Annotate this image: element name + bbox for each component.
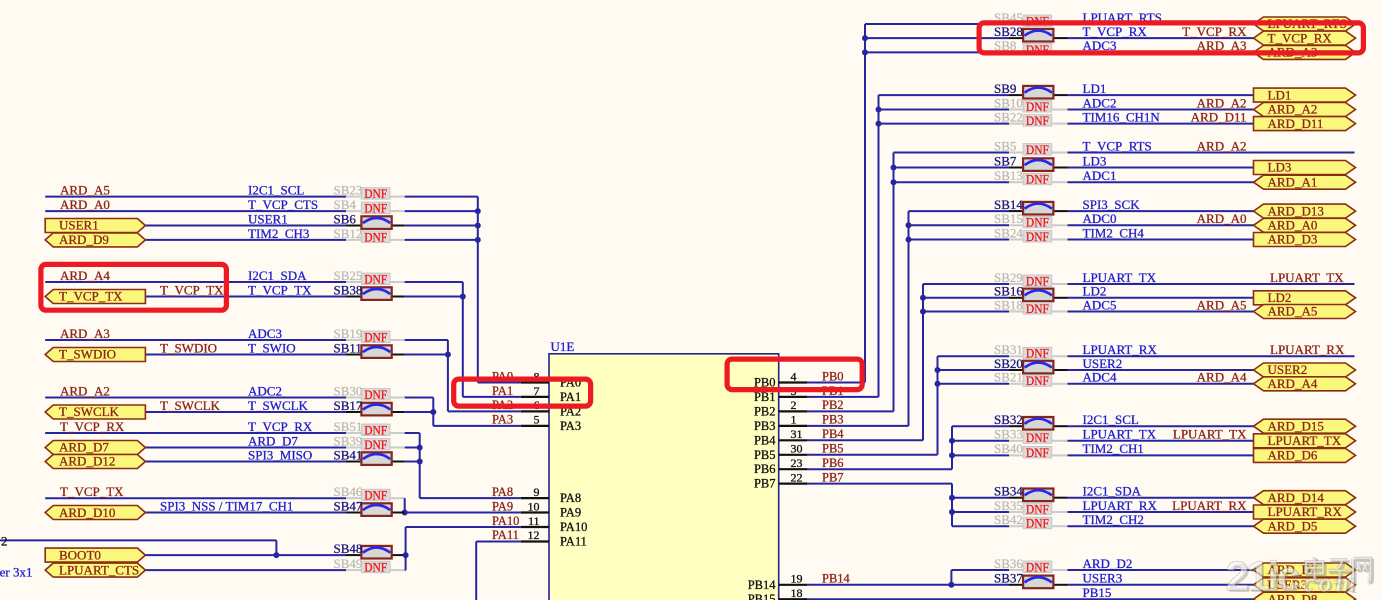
- svg-text:T_VCP_RX: T_VCP_RX: [1182, 24, 1247, 39]
- svg-text:SB41: SB41: [334, 447, 363, 462]
- svg-text:12: 12: [528, 528, 540, 542]
- svg-text:SB42: SB42: [994, 512, 1023, 527]
- svg-text:ARD_D11: ARD_D11: [1268, 116, 1324, 131]
- svg-text:SB5: SB5: [994, 138, 1016, 153]
- svg-text:PB7: PB7: [822, 470, 844, 484]
- svg-text:T_VCP_RX: T_VCP_RX: [1268, 30, 1333, 45]
- svg-text:USER3: USER3: [1083, 571, 1123, 586]
- svg-text:ARD_D15: ARD_D15: [1268, 418, 1324, 433]
- svg-text:PB14: PB14: [748, 578, 777, 592]
- svg-text:9: 9: [534, 485, 540, 499]
- svg-text:ADC3: ADC3: [248, 326, 282, 341]
- svg-text:11: 11: [528, 514, 540, 528]
- svg-text:ARD_D7: ARD_D7: [59, 440, 109, 455]
- svg-text:T_VCP_CTS: T_VCP_CTS: [248, 197, 318, 212]
- svg-text:DNF: DNF: [1026, 373, 1049, 388]
- svg-text:ARD_D3: ARD_D3: [1268, 232, 1318, 247]
- svg-text:PA10: PA10: [560, 520, 587, 534]
- svg-text:com: com: [1303, 568, 1360, 597]
- svg-text:PA9: PA9: [560, 506, 581, 520]
- svg-text:DNF: DNF: [1026, 229, 1049, 244]
- svg-text:SB47: SB47: [334, 498, 363, 513]
- svg-text:PB0: PB0: [822, 369, 844, 383]
- svg-text:LPUART_RX: LPUART_RX: [1270, 342, 1345, 357]
- svg-text:2: 2: [1, 534, 8, 549]
- svg-text:LPUART_TX: LPUART_TX: [1173, 427, 1247, 442]
- svg-text:T_SWCLK: T_SWCLK: [248, 398, 309, 413]
- svg-text:ARD_A0: ARD_A0: [60, 197, 110, 212]
- svg-text:SB19: SB19: [334, 326, 363, 341]
- svg-text:LPUART_TX: LPUART_TX: [1270, 270, 1344, 285]
- svg-text:DNF: DNF: [1026, 559, 1049, 574]
- svg-text:DNF: DNF: [1026, 430, 1049, 445]
- svg-text:SB21: SB21: [994, 370, 1023, 385]
- svg-text:USER2: USER2: [1083, 356, 1123, 371]
- svg-text:ARD_A4: ARD_A4: [60, 268, 110, 283]
- svg-text:TIM2_CH1: TIM2_CH1: [1083, 441, 1144, 456]
- svg-text:SB30: SB30: [334, 383, 363, 398]
- svg-text:ARD_D13: ARD_D13: [1268, 203, 1324, 218]
- svg-text:LD1: LD1: [1268, 87, 1292, 102]
- svg-text:SPI3_NSS / TIM17_CH1: SPI3_NSS / TIM17_CH1: [160, 498, 293, 513]
- svg-text:LD3: LD3: [1083, 153, 1107, 168]
- svg-text:30: 30: [791, 442, 803, 456]
- svg-text:22: 22: [791, 470, 803, 484]
- svg-text:SB7: SB7: [994, 153, 1017, 168]
- svg-text:LPUART_TX: LPUART_TX: [1083, 270, 1157, 285]
- svg-text:T_SWCLK: T_SWCLK: [59, 404, 120, 419]
- svg-text:23: 23: [791, 456, 803, 470]
- svg-text:SB49: SB49: [334, 556, 363, 571]
- svg-text:PA1: PA1: [492, 384, 513, 398]
- svg-text:SB10: SB10: [994, 95, 1023, 110]
- svg-text:ARD_A5: ARD_A5: [1268, 304, 1318, 319]
- svg-text:PA9: PA9: [492, 499, 513, 513]
- svg-text:DNF: DNF: [364, 186, 387, 201]
- svg-text:21ic: 21ic: [1226, 553, 1299, 599]
- svg-text:SB33: SB33: [994, 427, 1023, 442]
- svg-text:PB4: PB4: [754, 433, 776, 447]
- svg-text:PA10: PA10: [492, 514, 519, 528]
- svg-text:PB3: PB3: [822, 413, 844, 427]
- svg-text:SB15: SB15: [994, 211, 1023, 226]
- svg-text:I2C1_SDA: I2C1_SDA: [248, 268, 307, 283]
- svg-text:T_SWDIO: T_SWDIO: [59, 347, 116, 362]
- svg-text:ler 3x1: ler 3x1: [0, 565, 32, 580]
- svg-text:T_SWIO: T_SWIO: [248, 340, 296, 355]
- svg-text:DNF: DNF: [1026, 215, 1049, 230]
- svg-text:I2C1_SCL: I2C1_SCL: [248, 182, 304, 197]
- svg-text:TIM16_CH1N: TIM16_CH1N: [1083, 109, 1161, 124]
- svg-text:T_SWDIO: T_SWDIO: [160, 340, 217, 355]
- svg-text:SB22: SB22: [994, 109, 1023, 124]
- svg-text:ADC2: ADC2: [1083, 95, 1117, 110]
- svg-text:USER2: USER2: [1268, 362, 1308, 377]
- svg-text:SPI3_MISO: SPI3_MISO: [248, 447, 312, 462]
- svg-text:ARD_A4: ARD_A4: [1268, 376, 1318, 391]
- svg-text:SB11: SB11: [334, 340, 362, 355]
- svg-text:ARD_D7: ARD_D7: [248, 433, 298, 448]
- svg-text:SB14: SB14: [994, 197, 1023, 212]
- svg-text:ARD_A4: ARD_A4: [1197, 370, 1247, 385]
- svg-text:PB2: PB2: [822, 398, 844, 412]
- svg-text:SB23: SB23: [334, 182, 363, 197]
- svg-text:PB6: PB6: [822, 456, 844, 470]
- svg-text:LPUART_CTS: LPUART_CTS: [59, 562, 139, 577]
- svg-text:DNF: DNF: [1026, 501, 1049, 516]
- svg-text:1: 1: [791, 413, 797, 427]
- svg-text:T_VCP_RTS: T_VCP_RTS: [1083, 138, 1152, 153]
- svg-text:USER1: USER1: [248, 211, 288, 226]
- svg-text:SB32: SB32: [994, 412, 1023, 427]
- svg-text:SB13: SB13: [994, 168, 1023, 183]
- svg-text:LD3: LD3: [1268, 160, 1292, 175]
- svg-text:31: 31: [791, 427, 803, 441]
- svg-text:SPI3_SCK: SPI3_SCK: [1083, 197, 1141, 212]
- svg-text:SB4: SB4: [334, 197, 357, 212]
- svg-text:DNF: DNF: [1026, 142, 1049, 157]
- svg-text:DNF: DNF: [1026, 445, 1049, 460]
- svg-text:ADC4: ADC4: [1083, 370, 1117, 385]
- svg-text:SB36: SB36: [994, 556, 1023, 571]
- svg-text:PA3: PA3: [560, 419, 581, 433]
- svg-text:PB6: PB6: [754, 462, 776, 476]
- svg-text:ARD_D10: ARD_D10: [59, 505, 115, 520]
- svg-text:SB48: SB48: [334, 541, 363, 556]
- svg-text:ARD_A3: ARD_A3: [60, 326, 110, 341]
- svg-text:LPUART_RX: LPUART_RX: [1083, 498, 1158, 513]
- svg-text:SB46: SB46: [334, 484, 363, 499]
- svg-text:SB40: SB40: [994, 441, 1023, 456]
- svg-text:BOOT0: BOOT0: [59, 547, 101, 562]
- svg-text:DNF: DNF: [1026, 99, 1049, 114]
- svg-text:ARD_A2: ARD_A2: [1197, 95, 1247, 110]
- svg-text:10: 10: [528, 499, 540, 513]
- svg-text:USER1: USER1: [59, 218, 99, 233]
- svg-text:DNF: DNF: [364, 229, 387, 244]
- svg-text:ADC2: ADC2: [248, 383, 282, 398]
- svg-text:ADC0: ADC0: [1083, 211, 1117, 226]
- svg-text:ARD_D2: ARD_D2: [1083, 556, 1133, 571]
- svg-text:SB9: SB9: [994, 81, 1016, 96]
- svg-text:PA3: PA3: [492, 413, 513, 427]
- svg-text:ARD_D9: ARD_D9: [59, 232, 109, 247]
- svg-text:ARD_D5: ARD_D5: [1268, 518, 1318, 533]
- svg-text:T_VCP_RX: T_VCP_RX: [248, 419, 313, 434]
- svg-text:DNF: DNF: [1026, 273, 1049, 288]
- svg-text:SB35: SB35: [994, 498, 1023, 513]
- svg-text:SB29: SB29: [994, 270, 1023, 285]
- svg-text:T_VCP_RX: T_VCP_RX: [60, 419, 125, 434]
- svg-text:PB5: PB5: [822, 442, 844, 456]
- svg-text:DNF: DNF: [364, 329, 387, 344]
- svg-text:DNF: DNF: [364, 422, 387, 437]
- svg-text:ARD_A5: ARD_A5: [60, 182, 110, 197]
- svg-text:ARD_A0: ARD_A0: [1197, 211, 1247, 226]
- svg-text:PA8: PA8: [560, 491, 581, 505]
- svg-text:DNF: DNF: [364, 560, 387, 575]
- svg-text:DNF: DNF: [1026, 113, 1049, 128]
- svg-text:DNF: DNF: [1026, 516, 1049, 531]
- svg-text:4: 4: [791, 369, 797, 383]
- svg-text:ARD_A2: ARD_A2: [1268, 102, 1318, 117]
- svg-text:PB7: PB7: [754, 477, 776, 491]
- svg-text:T_VCP_TX: T_VCP_TX: [59, 289, 123, 304]
- svg-text:18: 18: [791, 586, 803, 600]
- svg-text:SB34: SB34: [994, 484, 1023, 499]
- svg-text:ARD_A0: ARD_A0: [1268, 218, 1318, 233]
- svg-text:PA11: PA11: [560, 535, 587, 549]
- svg-text:DNF: DNF: [364, 201, 387, 216]
- svg-text:SB37: SB37: [994, 571, 1023, 586]
- svg-text:DNF: DNF: [364, 488, 387, 503]
- svg-text:I2C1_SDA: I2C1_SDA: [1083, 484, 1142, 499]
- svg-text:ARD_D11: ARD_D11: [1191, 109, 1247, 124]
- svg-text:T_VCP_RX: T_VCP_RX: [1083, 24, 1148, 39]
- svg-text:SB12: SB12: [334, 226, 363, 241]
- svg-text:DNF: DNF: [364, 387, 387, 402]
- svg-text:SB51: SB51: [334, 419, 363, 434]
- svg-text:ARD_A5: ARD_A5: [1197, 297, 1247, 312]
- svg-text:PA1: PA1: [560, 390, 581, 404]
- svg-text:ARD_A1: ARD_A1: [1268, 174, 1318, 189]
- svg-text:SB18: SB18: [994, 297, 1023, 312]
- svg-text:DNF: DNF: [1026, 346, 1049, 361]
- svg-text:SB28: SB28: [994, 24, 1023, 39]
- svg-text:LPUART_RX: LPUART_RX: [1268, 504, 1343, 519]
- svg-text:PA8: PA8: [492, 485, 513, 499]
- svg-text:SB6: SB6: [334, 211, 357, 226]
- svg-text:PB4: PB4: [822, 427, 844, 441]
- svg-text:T_VCP_TX: T_VCP_TX: [160, 282, 224, 297]
- svg-text:DNF: DNF: [1026, 172, 1049, 187]
- svg-text:DNF: DNF: [364, 437, 387, 452]
- svg-text:2: 2: [791, 398, 797, 412]
- svg-text:SB17: SB17: [334, 398, 363, 413]
- svg-text:TIM2_CH2: TIM2_CH2: [1083, 512, 1144, 527]
- svg-text:PB15: PB15: [748, 592, 776, 600]
- svg-text:ADC5: ADC5: [1083, 297, 1117, 312]
- svg-text:PB3: PB3: [754, 419, 776, 433]
- svg-text:ARD_A2: ARD_A2: [60, 383, 110, 398]
- svg-text:TIM2_CH4: TIM2_CH4: [1083, 225, 1145, 240]
- svg-text:PA11: PA11: [492, 528, 519, 542]
- svg-text:PB2: PB2: [754, 404, 776, 418]
- svg-text:PB15: PB15: [1083, 585, 1112, 600]
- svg-text:T_VCP_TX: T_VCP_TX: [248, 282, 312, 297]
- svg-text:7: 7: [534, 384, 540, 398]
- svg-text:LPUART_TX: LPUART_TX: [1268, 433, 1342, 448]
- svg-text:ADC1: ADC1: [1083, 168, 1117, 183]
- svg-text:19: 19: [791, 572, 803, 586]
- svg-text:DNF: DNF: [1026, 301, 1049, 316]
- svg-text:T_SWCLK: T_SWCLK: [160, 398, 221, 413]
- svg-text:SB20: SB20: [994, 356, 1023, 371]
- svg-text:PB5: PB5: [754, 448, 776, 462]
- svg-text:I2C1_SCL: I2C1_SCL: [1083, 412, 1139, 427]
- svg-text:PB14: PB14: [822, 572, 851, 586]
- svg-text:SB24: SB24: [994, 225, 1023, 240]
- svg-text:T_VCP_TX: T_VCP_TX: [60, 484, 124, 499]
- svg-text:5: 5: [534, 413, 540, 427]
- svg-text:ARD_D6: ARD_D6: [1268, 448, 1318, 463]
- svg-text:LPUART_RX: LPUART_RX: [1172, 498, 1247, 513]
- svg-text:LD1: LD1: [1083, 81, 1107, 96]
- svg-text:ARD_D12: ARD_D12: [59, 454, 115, 469]
- svg-text:SB38: SB38: [334, 282, 363, 297]
- svg-text:ARD_D14: ARD_D14: [1268, 490, 1325, 505]
- svg-text:LPUART_TX: LPUART_TX: [1083, 427, 1157, 442]
- svg-text:ARD_A2: ARD_A2: [1197, 138, 1247, 153]
- svg-text:TIM2_CH3: TIM2_CH3: [248, 226, 309, 241]
- svg-text:U1E: U1E: [551, 339, 575, 354]
- svg-text:SB39: SB39: [334, 433, 363, 448]
- svg-text:DNF: DNF: [364, 271, 387, 286]
- svg-text:SB25: SB25: [334, 268, 363, 283]
